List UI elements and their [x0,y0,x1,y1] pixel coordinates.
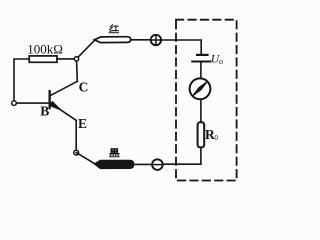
wire base lead from node N1 to transistor bar [14,102,49,104]
plus sign [151,36,161,44]
svg-text:C: C [79,79,89,94]
meter G outer circle [190,78,211,99]
wire resistor right end to node N2 [57,58,77,60]
label hei (black) hand-drawn glyph [110,148,119,156]
wire minus terminal to black probe [134,163,152,165]
node N1 junction circle [12,101,17,106]
transistor Q1 base bar [49,90,51,109]
wire plus terminal to battery top [161,40,201,54]
wire meter bottom to resistor R0 top [200,99,202,122]
svg-text:0: 0 [214,134,218,142]
underline of hong [109,32,118,34]
svg-text:E: E [78,116,87,131]
wire red probe to plus terminal [131,39,151,41]
red probe body (outline) [94,37,130,43]
node N2 junction circle [74,57,78,61]
terminal + circle [151,35,161,45]
wire top-left lead from resistor left end and drop to base node [14,59,29,103]
terminal - circle [152,159,163,170]
minus sign [153,164,163,166]
underline of hei [110,156,120,158]
meter needle [192,81,208,96]
wire R0 bottom down and left to minus terminal [163,147,201,164]
transistor Q1 emitter line [51,103,76,120]
wire collector riser from node N2 down to corner [76,59,79,82]
resistor R1 body (100 k ohm) [29,56,57,62]
resistor R0 body [198,122,205,147]
wire emitter vertical down to node N3 [75,120,77,152]
svg-text:B: B [40,104,49,119]
wire collector diagonal to transistor bar [51,81,78,95]
wire node N3 diagonal down to black probe tip [76,153,95,164]
label hong (red) hand-drawn glyph [110,25,119,31]
battery U0 short plate (top) [197,54,207,56]
svg-text:100kΩ: 100kΩ [27,41,63,56]
black probe body (filled) [94,160,133,168]
wire node N2 diagonal up to red probe tip [77,40,96,59]
svg-text:o: o [219,57,223,66]
node N3 junction circle [74,150,79,155]
wire battery bottom to meter top [200,63,202,79]
dashed enclosure box [176,20,237,181]
transistor Q1 emitter arrow (NPN, pointing away from bar) [50,101,62,110]
battery U0 long plate (bottom) [192,61,210,63]
